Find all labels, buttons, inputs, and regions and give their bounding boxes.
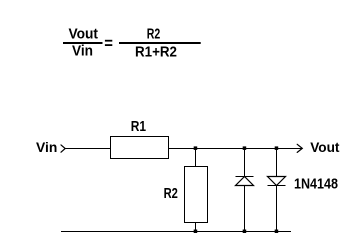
svg-text:Vout: Vout [69,27,99,43]
bottom ground rail wire [61,231,291,233]
diode D2 triangle (pointing down) [268,177,286,186]
formula fraction bar (Vout/Vin) [63,42,103,44]
svg-text:1N4148: 1N4148 [294,177,338,193]
output arrow head [297,144,302,152]
svg-text:Vin: Vin [72,44,93,60]
svg-text:Vin: Vin [36,140,57,155]
node junction dot E (D1 to rail) [243,230,247,234]
resistor R2 body [185,167,208,223]
node junction dot F (D2 to rail) [275,230,279,234]
node junction dot B (top of D1) [243,146,247,150]
svg-text:R2: R2 [164,186,178,202]
svg-text:R1+R2: R1+R2 [135,45,177,61]
formula equals sign [105,40,112,42]
node junction dot C (top of D2) [275,146,279,150]
wire node A down to R2 [195,148,197,167]
svg-text:R1: R1 [131,119,146,135]
wire R1 to output arrow [169,148,303,150]
diode D1 triangle (pointing up) [236,177,254,186]
wire node C down to diode D2 [276,148,278,177]
svg-text:Vout: Vout [310,140,340,155]
wire D1 to rail [244,186,246,232]
node junction dot A (top of R2) [194,146,198,150]
wire D2 to rail [276,186,278,232]
resistor R1 body [111,137,169,159]
svg-text:R2: R2 [147,26,161,42]
diode D1 cathode bar (top) [236,176,254,178]
wire node B down to diode D1 [244,148,246,177]
wire R2 bottom to rail [195,223,197,232]
input port connector (open arrow) [61,145,65,152]
node junction dot D (R2 to rail) [194,230,198,234]
diode D2 cathode bar (bottom) [268,185,286,187]
formula fraction bar (R2/(R1+R2)) [119,42,201,44]
wire Vin to R1 [65,148,110,150]
